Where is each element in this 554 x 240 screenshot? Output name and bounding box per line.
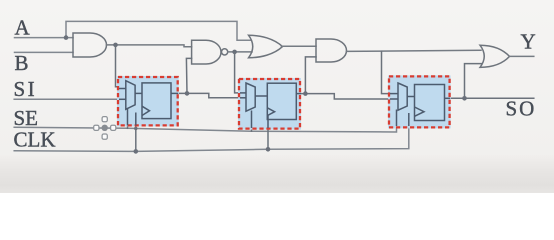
flip-flop FF1 (142, 83, 171, 119)
flip-flop FF2 clock triangle (267, 108, 274, 116)
wire top feedback rail from A to OR1 upper input (66, 21, 251, 40)
wire cell2 output inside (296, 93, 301, 95)
node junction on FF3 output (462, 96, 467, 101)
and-gate G4 (316, 39, 346, 62)
svg-text:A: A (15, 16, 31, 40)
scan cell 2 red dashed boundary (239, 79, 300, 129)
wire CLK rail (14, 113, 409, 151)
scan cell 1 blue body (117, 76, 179, 126)
wire cell1 select inside (127, 109, 129, 126)
wire Y output (510, 55, 534, 57)
svg-text:Y: Y (521, 30, 536, 54)
wire SE branch up to cell2 mux select (251, 110, 253, 131)
node junction CLK cell2 (266, 147, 271, 152)
wire from AND1 output down to cell1 mux D input (116, 45, 127, 89)
svg-text:B: B (15, 51, 29, 75)
svg-text:SI: SI (14, 77, 38, 101)
flip-flop FF3 (415, 85, 445, 121)
nand-gate G2 (192, 40, 221, 64)
wire SE rail (14, 110, 396, 133)
scan cell 1 red dashed boundary (118, 77, 178, 125)
flip-flop FF2 (267, 83, 296, 119)
scan cell 3 blue body (388, 75, 451, 128)
scan cell 3 red dashed boundary (389, 76, 450, 127)
node junction on AND1 output (113, 43, 118, 48)
node junction CLK cell1 (134, 149, 139, 154)
wire SI input to cell1 mux scan input (14, 98, 126, 100)
and-gate G1 (A·B) (73, 33, 107, 57)
svg-text:SO: SO (506, 96, 537, 120)
wire FF3 output up to OR-Y lower input (465, 64, 482, 99)
wire SE branch up to cell1 mux select (127, 108, 129, 128)
wire mux1 output to FF1 D (135, 92, 142, 94)
mux U2 (246, 83, 255, 111)
move cursor icon on SE wire (94, 117, 116, 140)
scan cell 1 (117, 76, 179, 126)
wire OR1 output to AND2 upper input (282, 45, 317, 47)
wire cell3 D input inside (390, 93, 399, 95)
or-gate G5 output Y (480, 45, 510, 67)
node junction on NAND output (232, 50, 237, 55)
wire cell3 output inside (445, 97, 451, 99)
wire cell1 output inside (171, 92, 178, 94)
wire mux2 output to FF2 D (255, 95, 267, 97)
node junction on FF2 output (303, 91, 308, 96)
wire FF1 output up to NAND lower input (186, 58, 191, 93)
wire B input (15, 51, 74, 53)
wire cell3 scan input inside (390, 98, 399, 100)
wire cell2 clock inside (267, 116, 269, 128)
node junction on FF1 output (185, 91, 190, 96)
scan cell 2 (238, 78, 301, 130)
or-gate G3 (249, 35, 283, 58)
wire CLK branch up to cell1 clock (135, 113, 137, 152)
wire FF2 output up to AND2 lower input (305, 57, 316, 94)
wire FF3 output to SO (445, 97, 534, 99)
nand-gate G2 output bubble (222, 49, 228, 55)
wire cell1 D input inside (119, 88, 127, 90)
wire FF2 output to cell3 scan input (296, 94, 398, 99)
node junction on A wire (64, 35, 69, 40)
wire cell1 clock inside (135, 113, 137, 126)
wire AND2 output down to cell3 mux D input (382, 51, 399, 93)
wire cell3 select inside (396, 110, 398, 127)
wire cell2 select inside (251, 111, 253, 129)
wire mux3 output to FF3 D (407, 96, 414, 98)
wire cell2 scan input inside (240, 97, 247, 99)
scan cell 2 blue body (238, 78, 301, 130)
wire CLK branch up to cell2 clock (267, 116, 269, 149)
wire NAND output down to cell2 mux D input (235, 52, 246, 93)
wire cell2 D input inside (240, 92, 247, 94)
flip-flop FF1 clock triangle (142, 106, 150, 115)
flip-flop FF3 clock triangle (415, 107, 425, 116)
wire FF1 output to cell2 scan input (171, 93, 246, 97)
wire AND2 output to OR-Y upper input (347, 50, 482, 51)
svg-text:CLK: CLK (14, 127, 56, 151)
mux U3 (398, 83, 407, 110)
wire cell3 clock inside (408, 113, 410, 126)
wire NAND output to OR1 lower input (228, 51, 252, 53)
wire A input (15, 37, 74, 39)
scan cell 3 (388, 75, 451, 128)
mux U1 (126, 81, 135, 110)
wire cell1 scan input inside (119, 98, 127, 100)
wire AND1 output to NAND upper input (107, 45, 192, 47)
